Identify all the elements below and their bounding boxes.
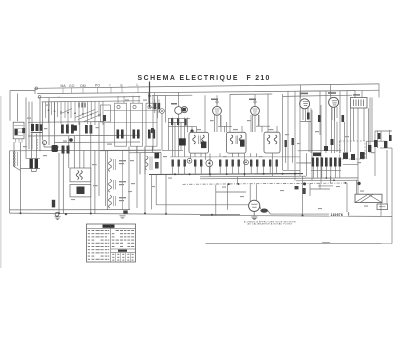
wire bus y183 dash-dot (183, 183, 348, 184)
wire left vert x14 (13, 142, 15, 152)
coilpack trimmers (117, 105, 151, 108)
wire x347 down (346, 183, 348, 212)
wire x288 ext (283, 150, 301, 170)
capacitor C3 (90, 125, 93, 134)
tube V2 cap (216, 101, 218, 103)
wire T6 ups (216, 184, 256, 215)
svg-text:GO: GO (69, 84, 75, 88)
wire verticals mid parts (195, 122, 257, 177)
trimmer t2 (206, 160, 213, 167)
wire thick antenna lead (149, 82, 151, 108)
transformer box B9 (70, 168, 91, 182)
wire mid extra verticals (106, 93, 256, 206)
wire left vert x59 (58, 153, 60, 214)
wire x295 (294, 91, 296, 180)
oscillator coil assembly (140, 153, 152, 174)
parts right cluster (307, 113, 392, 167)
scan edge artifact left (0, 96, 2, 268)
junction dot2 (65, 213, 67, 215)
wire bottom rail left (10, 213, 241, 215)
svg-text:SCHEMA ELECTRIQUE: SCHEMA ELECTRIQUE (138, 75, 239, 82)
wire x358 (357, 108, 359, 194)
resistor R6 (30, 159, 33, 169)
svg-text:F 210: F 210 (247, 75, 271, 82)
table lower right grid (116, 253, 131, 262)
trimmer t1 (187, 158, 192, 163)
trimmer cap C5 (43, 141, 47, 145)
wire component row bottom (28, 134, 140, 137)
stub bar (31, 132, 43, 133)
resistor R1 (31, 124, 34, 131)
wire osc stub (150, 107, 158, 109)
IF can T1 dark part (201, 142, 206, 149)
IF can T3 windings (267, 135, 277, 144)
wire V2 pins (215, 115, 221, 132)
wire bottom mid verts (228, 177, 238, 210)
wire top rail A (35, 84, 379, 88)
small parts left of V1 (154, 103, 156, 109)
tube V5 electrodes (332, 101, 337, 105)
svg-text:MA: MA (61, 84, 67, 88)
wire x320 down (310, 183, 330, 189)
wire left vert x68 (68, 136, 70, 168)
junction dots on buses (20, 95, 347, 217)
wire x381 down (380, 203, 382, 216)
resistor R8 (62, 146, 65, 154)
terminal MA (35, 87, 38, 90)
wire x331 (331, 107, 333, 153)
tube V1b (181, 107, 187, 113)
wire left col1 (17, 94, 19, 121)
wire right bus y150 (298, 149, 341, 152)
wire mid col x122 (122, 150, 124, 209)
svg-text:OM: OM (80, 84, 86, 88)
trimmer t3 (244, 160, 249, 165)
wire bottom sub rail (10, 209, 131, 211)
resistor R10 vertical (52, 200, 55, 208)
resistor R2b (40, 124, 43, 131)
wire x321 (320, 105, 322, 183)
antenna box A1 (13, 122, 24, 139)
IF can T1 core (199, 136, 201, 145)
dial lamp oval (260, 209, 268, 213)
terminal E (38, 96, 41, 99)
wire x288 (287, 91, 289, 150)
wire left col5 (39, 98, 41, 151)
wire bus y176 (200, 175, 306, 178)
wire left vert x107 (106, 150, 108, 210)
wire x370 (369, 98, 371, 154)
wire left vert x84 (83, 150, 85, 168)
wire switch rail D (42, 101, 140, 102)
small box left of K1 (101, 105, 111, 122)
resistor R2 (36, 124, 39, 131)
resistor R3 (61, 125, 64, 134)
table header underline (87, 227, 136, 229)
wire x330 mid (330, 176, 332, 183)
IF can T2 core (236, 136, 238, 145)
cap left of T1 (179, 138, 186, 145)
wire mid col x145 (144, 146, 146, 174)
tube V1 fill marks (183, 108, 186, 112)
wire mid col x137 (136, 146, 138, 152)
wire coil step (14, 167, 21, 171)
wire x330 top (330, 85, 332, 98)
wire bottom most rail (206, 242, 393, 244)
wire band tick stubs (63, 87, 138, 93)
wire x387 (386, 150, 388, 204)
OPT windings (354, 100, 364, 107)
antenna box core bar (15, 129, 18, 135)
coilpack feeds (118, 93, 155, 104)
wire right outer vert (391, 148, 393, 244)
wire x375 (374, 131, 376, 176)
wire part stubs down (173, 167, 277, 175)
wire right stubs (286, 145, 311, 163)
wire right upper extras (367, 108, 393, 145)
parts in K2 (133, 130, 136, 139)
wire x364 (363, 108, 365, 141)
small box marks (379, 206, 386, 208)
wire x311 (310, 108, 312, 153)
osc trimmer cap dark (155, 153, 160, 159)
wire x320 (319, 91, 321, 135)
wire left bottom bus (10, 149, 162, 152)
wire V1 pins (173, 114, 185, 157)
tube V3 (251, 106, 260, 115)
wire V3 pins (253, 115, 259, 132)
wire V4 V5 pins (303, 107, 337, 121)
wire x300 (300, 85, 302, 99)
wire x355 to OPT (354, 91, 356, 98)
wire mid col x152 (151, 146, 153, 152)
antenna coil L1 (13, 151, 17, 166)
wire left vert x91 (90, 122, 92, 214)
tube V3 electrodes (253, 103, 258, 113)
tube V4 output (300, 99, 310, 109)
wire right vert extras (307, 91, 386, 180)
IF coil stack 2 (109, 179, 116, 192)
tube table frame (87, 224, 136, 262)
wire x312 (311, 110, 313, 180)
wire mid light bus (170, 156, 300, 158)
wire x310 down (309, 183, 311, 196)
parts in K1 (117, 130, 120, 139)
wire mid B+ seg2 (230, 93, 272, 95)
capacitor C2 (85, 125, 88, 134)
lamp filament (268, 211, 271, 214)
parts in K3 (148, 130, 151, 139)
wire x340 (339, 91, 341, 153)
wire left vert x95 (94, 150, 96, 214)
speaker box (355, 194, 382, 202)
parts row between cans (171, 119, 294, 167)
tube labels smudges (171, 92, 360, 104)
tube V6 magic eye (249, 200, 260, 211)
wire osc top seg (129, 151, 161, 153)
part cluster mid-bottom (295, 186, 299, 189)
tube V1 double triode (175, 107, 183, 115)
part in that box (103, 115, 106, 121)
coilpack box K1 (115, 103, 127, 146)
table right subheader lines (111, 249, 136, 253)
switch pin bars (79, 103, 85, 108)
bottom dash mark (322, 241, 330, 243)
wire left col3 (28, 102, 30, 149)
table center divider (110, 224, 112, 262)
wire parts small top (155, 100, 159, 114)
junction terminal (55, 212, 59, 216)
wire resistor bottoms join (21, 158, 41, 171)
wire x347 (346, 91, 348, 153)
svg-text:I: I (110, 84, 111, 88)
wire under V1 segs (168, 118, 190, 122)
wire top rail B (38, 91, 356, 94)
speaker diagonals (355, 194, 382, 202)
table row text left (88, 230, 109, 260)
dark winding in B10 (77, 187, 85, 195)
wire can feeds (192, 94, 277, 132)
switch lever diagonals (60, 109, 101, 122)
wire left outer bottom vert (9, 151, 11, 213)
table right subheader smudge (118, 250, 127, 252)
wire left vert x20 (20, 142, 22, 213)
wire c5 c6 joins (44, 142, 68, 153)
resistor R5 (71, 125, 74, 134)
wire right jog (380, 147, 392, 149)
wire x272 down (272, 153, 274, 176)
terminal circle right (345, 212, 349, 216)
wire left vert x80 (79, 122, 81, 168)
electrolytic C6 (52, 145, 58, 152)
output transformer box (351, 98, 368, 109)
wire x302 down (302, 176, 304, 216)
capacitor C4 dark (74, 125, 77, 130)
switch contact dots (49, 110, 100, 115)
IF can T1 (189, 132, 209, 153)
wire bottom rail right (200, 215, 392, 216)
wire left vert x63 (62, 150, 64, 213)
resistor R7 (35, 159, 38, 169)
trimmer t4 (160, 109, 165, 114)
label 130576 (329, 212, 348, 216)
junction blob2 (303, 182, 306, 185)
wire left verticals extra (26, 98, 55, 159)
IF coil stack 1 (109, 159, 116, 172)
wire bus y178 (200, 177, 358, 180)
wire right horiz extras (300, 122, 358, 186)
wire component row top (28, 121, 104, 124)
wire left col6 (42, 102, 44, 140)
IF can T3 (264, 132, 280, 153)
switch comb contacts (46, 102, 104, 126)
wire x282 (282, 94, 284, 170)
tube V4 electrodes (303, 102, 308, 106)
resistor R4 (66, 125, 69, 134)
wire B+ right rail (298, 90, 379, 91)
wire top left corner (10, 91, 35, 121)
NT dashed box (340, 141, 366, 159)
coilpack box K2 (131, 103, 143, 146)
tube V3 cap (254, 101, 256, 103)
coil in B9 (76, 171, 82, 180)
table header text (103, 225, 115, 228)
dashed vertical (37, 139, 39, 150)
IF can T2 (227, 132, 247, 153)
wire x300 long (299, 92, 301, 176)
capacitor C1 (22, 128, 25, 133)
wire tube area segs (168, 115, 270, 132)
wire row mid (55, 141, 140, 144)
wire mid-left drop wires (137, 146, 156, 213)
svg-text:AU CALIBRATEUR A NOYAU PLONG: AU CALIBRATEUR A NOYAU PLONG (248, 223, 293, 226)
wire mid bus y150 (100, 149, 161, 152)
table row text right (112, 230, 134, 261)
transformer box B10 (70, 185, 91, 197)
wire T6 left feed (156, 204, 248, 206)
junction dot (69, 138, 73, 142)
wire dark AVC line (149, 173, 303, 176)
wire mid col x161 (160, 153, 162, 175)
V6 ground hatch (251, 211, 257, 219)
ground hatch2 (120, 216, 126, 219)
resistor R9 (67, 146, 70, 154)
junction component on bottom bus (123, 210, 127, 213)
wire bus y180 (296, 179, 358, 182)
IF can T1 windings (193, 135, 205, 144)
wire x353 (353, 108, 355, 141)
IF can T2 dark part (240, 140, 245, 147)
svg-text:PO: PO (95, 84, 100, 88)
wire T6 right lamp line (260, 206, 345, 214)
tube V2 (213, 106, 222, 115)
V6 inner mark (251, 204, 257, 207)
wire left col2 (25, 98, 27, 122)
wires crossing coilpack boxes (104, 111, 157, 123)
wire B+ right rail2 (283, 95, 352, 96)
tube V2 electrodes (215, 103, 220, 113)
svg-text:130576: 130576 (331, 213, 343, 217)
wire switch rail C (38, 97, 140, 98)
antenna box hatches (14, 126, 23, 143)
wire mid col x129 (128, 146, 130, 209)
value label smudges (23, 97, 375, 209)
tube V5 rectifier (329, 97, 339, 107)
junction blob (357, 182, 360, 185)
coil labels smudge (119, 160, 126, 201)
osc part 2 (155, 162, 159, 169)
wire mid col x104 (103, 122, 105, 151)
wire x379 top vert (378, 84, 380, 98)
wire mid B+ seg1 (152, 94, 192, 96)
svg-text:L: L (137, 83, 139, 87)
wire left vert x74 (73, 136, 75, 168)
wire x326 (325, 91, 327, 153)
wire left vert x99 (98, 122, 100, 196)
wire x334 (334, 107, 336, 153)
IF coil stack 3 (109, 195, 116, 208)
small box right (377, 204, 388, 210)
wire speaker feed (356, 180, 358, 194)
coilpack box K3 (146, 103, 157, 146)
wire rail stub (34, 88, 36, 93)
wire mid col x166 (165, 174, 167, 214)
wire left col4 (31, 102, 33, 149)
IF can T2 windings (230, 135, 242, 144)
ground hatch (55, 217, 61, 220)
